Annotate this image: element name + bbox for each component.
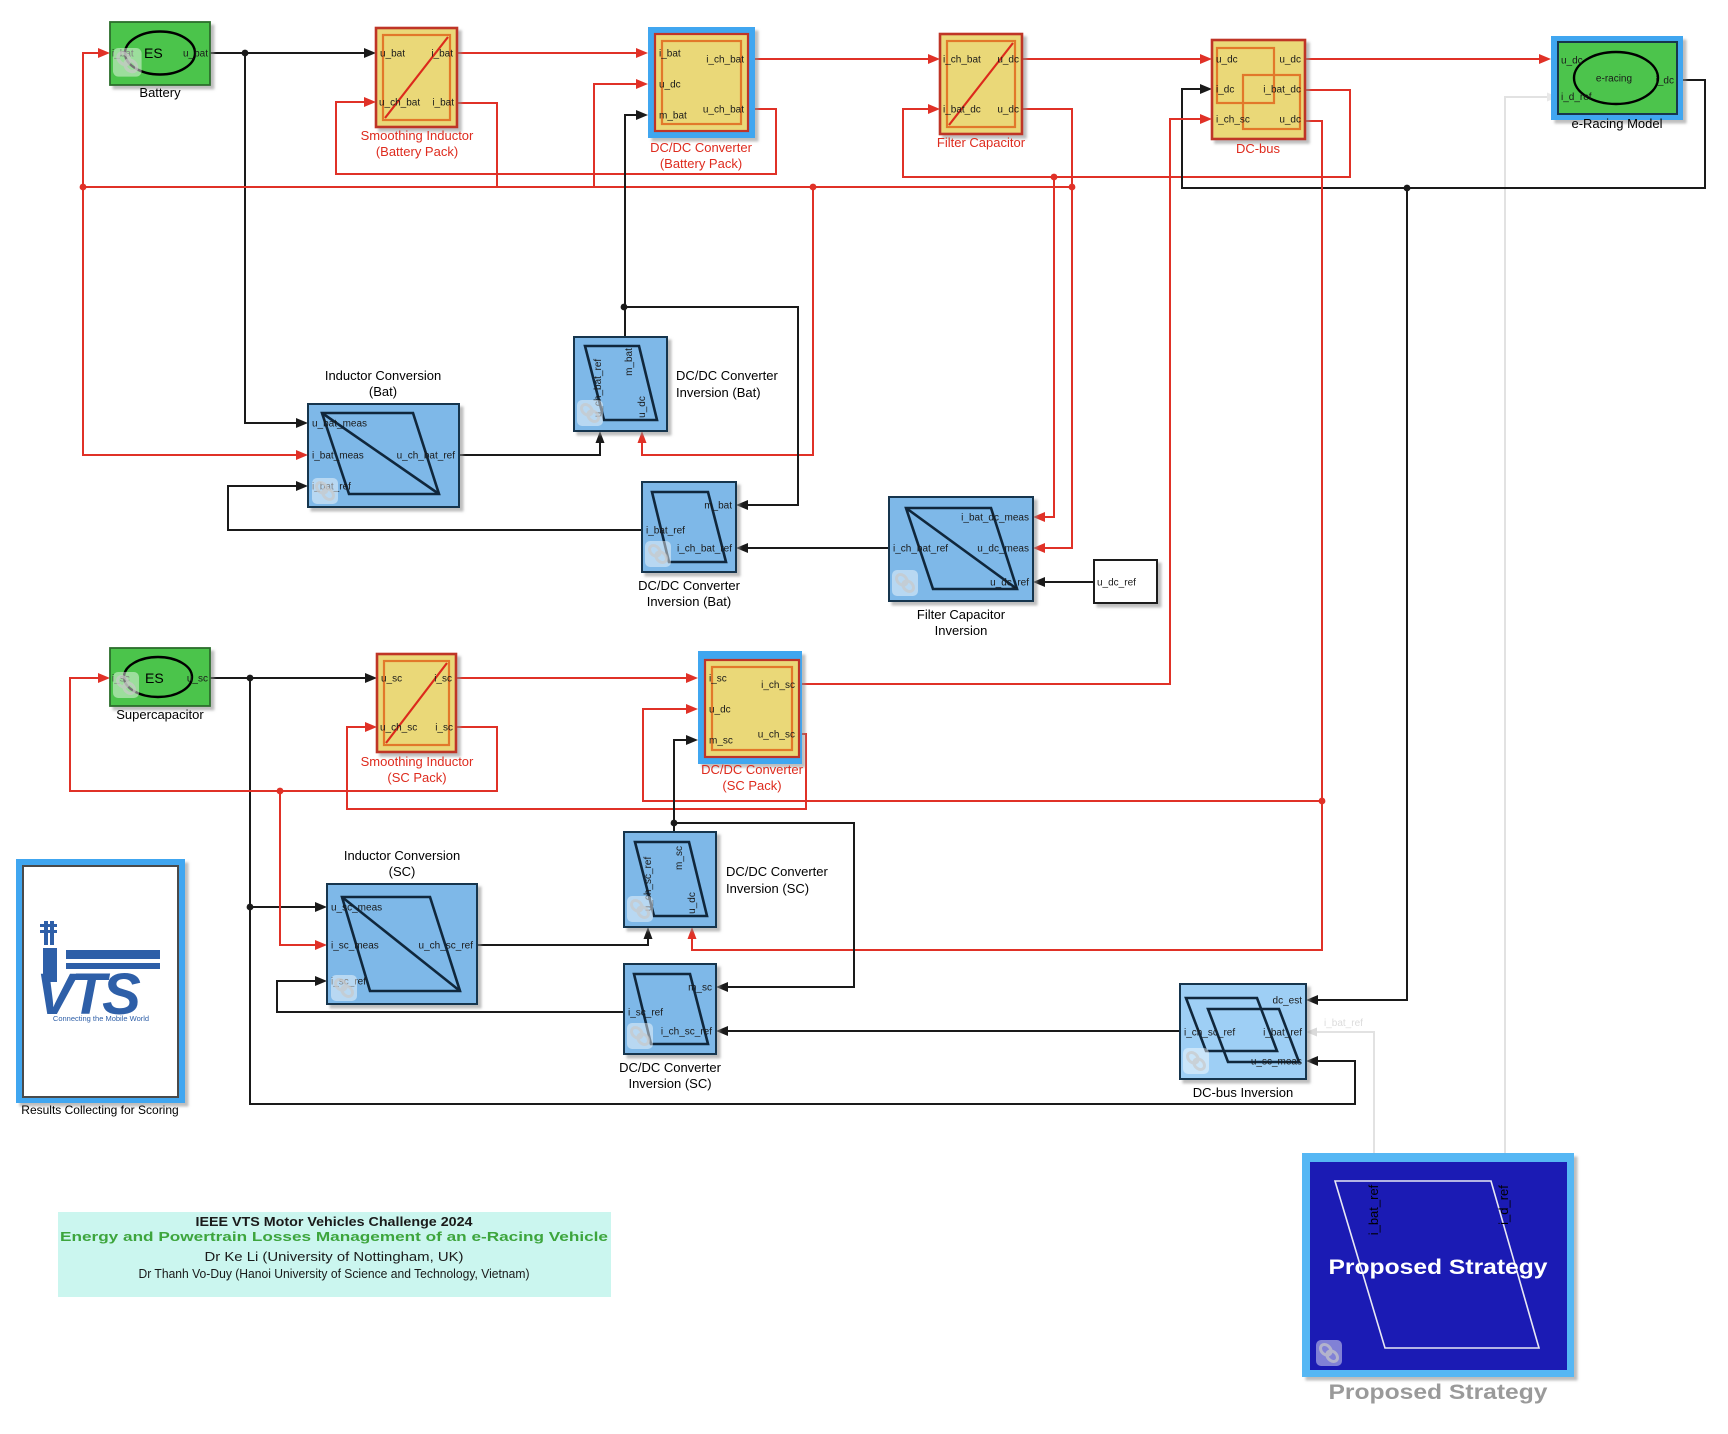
- svg-text:Inversion (SC): Inversion (SC): [726, 881, 809, 896]
- svg-text:i_bat: i_bat: [432, 98, 454, 109]
- svg-text:u_bat: u_bat: [380, 49, 405, 60]
- arrowhead u_sc_meas into DC-bus Inversion: [1306, 1056, 1318, 1066]
- svg-text:i_bat_dc: i_bat_dc: [1263, 85, 1301, 96]
- arrowhead i_bat_meas into Inductor Conversion Bat: [296, 450, 308, 460]
- block Battery: [110, 22, 210, 85]
- svg-text:i_bat_ref: i_bat_ref: [646, 526, 685, 537]
- arrowhead i_ch_sc_ref into inversion SC: [716, 1026, 728, 1036]
- svg-text:u_dc: u_dc: [687, 892, 698, 914]
- svg-text:i_ch_bat_ref: i_ch_bat_ref: [677, 544, 732, 555]
- wire i_ch_sc_ref (DC-bus Inversion output to DC/DC Converter Inversion SC, black): [727, 1030, 1180, 1032]
- svg-text:i_bat_dc_meas: i_bat_dc_meas: [961, 513, 1029, 524]
- wire i_bat feedback (Smoothing Inductor bottom output to Battery and i_bat_meas, red): [83, 53, 497, 455]
- svg-text:u_bat: u_bat: [183, 49, 208, 60]
- svg-text:u_ch_bat_ref: u_ch_bat_ref: [397, 451, 456, 462]
- arrowhead u_dc into rotated DC/DC Converter Inversion (SC): [688, 927, 697, 939]
- svg-text:i_dc: i_dc: [1656, 76, 1674, 87]
- svg-text:i_bat: i_bat: [431, 49, 453, 60]
- wire i_bat (Smoothing Inductor to DC/DC Converter Bat, red): [457, 52, 637, 54]
- svg-text:Dr Thanh Vo-Duy (Hanoi Univers: Dr Thanh Vo-Duy (Hanoi University of Sci…: [139, 1266, 530, 1281]
- svg-text:Battery: Battery: [139, 85, 181, 100]
- svg-text:i_ch_sc: i_ch_sc: [1216, 115, 1250, 126]
- block Inductor Conversion (SC): [327, 884, 477, 1004]
- junction u_sc at u_sc_meas branch: [247, 904, 254, 911]
- wire u_dc net SC side (DC-bus lower u_dc output, red): [643, 121, 1322, 950]
- arrowhead i_bat_dc into Filter Capacitor: [928, 104, 940, 114]
- svg-text:i_ch_sc_ref: i_ch_sc_ref: [661, 1027, 712, 1038]
- wire u_sc branch (to Inductor Conversion SC and DC-bus Inversion, black): [250, 678, 1355, 1104]
- arrowhead i_bat_ref into Inductor Conversion Bat: [296, 481, 308, 491]
- svg-text:u_ch_bat: u_ch_bat: [703, 105, 744, 116]
- annotation IEEE VTS text box: [58, 1212, 611, 1297]
- block Results Collecting for Scoring (VTS logo): [16, 859, 185, 1103]
- wire i_bat_ref (faint, Proposed Strategy to DC-bus Inversion): [1317, 1032, 1374, 1153]
- svg-text:u_ch_bat: u_ch_bat: [379, 98, 420, 109]
- wire u_dc net Bat side (Filter Capacitor lower u_dc output, red): [497, 84, 1072, 548]
- wire u_dc_ref (u_dc_ref block to FC Inversion, black): [1044, 581, 1094, 583]
- svg-text:(Battery Pack): (Battery Pack): [660, 156, 742, 171]
- svg-text:i_bat: i_bat: [659, 49, 681, 60]
- svg-text:i_sc_ref: i_sc_ref: [628, 1008, 663, 1019]
- svg-text:i_dc: i_dc: [1216, 85, 1234, 96]
- junction u_dc SC net: [1319, 798, 1326, 805]
- junction i_sc feedback: [277, 788, 284, 795]
- svg-text:Smoothing Inductor: Smoothing Inductor: [361, 754, 474, 769]
- arrowhead u_dc into DC-bus: [1200, 54, 1212, 64]
- svg-text:e-Racing Model: e-Racing Model: [1571, 116, 1662, 131]
- svg-text:i_ch_sc: i_ch_sc: [761, 680, 795, 691]
- svg-text:i_bat_ref: i_bat_ref: [1263, 1028, 1302, 1039]
- wire m_sc (rotated SC inversion output to DC/DC SC and inversion SC, black): [674, 740, 854, 987]
- svg-text:u_dc: u_dc: [1561, 56, 1583, 67]
- block DC/DC Converter (SC Pack): [698, 651, 802, 764]
- svg-text:DC/DC Converter: DC/DC Converter: [701, 762, 804, 777]
- svg-text:DC/DC Converter: DC/DC Converter: [726, 864, 829, 879]
- arrowhead i_d_ref faint: [1547, 93, 1558, 102]
- wire u_bat branch to Inductor Conversion (Bat): [245, 53, 297, 423]
- svg-text:m_bat: m_bat: [659, 111, 687, 122]
- wire i_sc_ref loop (inversion SC output to Inductor Conversion SC, black): [277, 981, 624, 1012]
- svg-text:Smoothing Inductor: Smoothing Inductor: [361, 128, 474, 143]
- svg-text:i_bat_dc: i_bat_dc: [943, 105, 981, 116]
- svg-text:DC/DC Converter: DC/DC Converter: [650, 140, 753, 155]
- arrowhead u_bat into SI Bat: [364, 48, 376, 58]
- arrowhead u_ch_sc into SI SC: [365, 722, 377, 732]
- svg-text:u_sc: u_sc: [381, 674, 402, 685]
- svg-text:m_bat: m_bat: [624, 348, 635, 376]
- block DC-bus: [1212, 40, 1305, 139]
- arrowhead i_sc_ref into Inductor Conversion SC: [315, 976, 327, 986]
- svg-text:u_dc: u_dc: [659, 80, 681, 91]
- wire i_ch_bat (DC/DC Converter to Filter Capacitor, red): [755, 58, 929, 60]
- arrowhead i_bat_ref faint: [1306, 1028, 1317, 1037]
- svg-text:u_dc: u_dc: [997, 105, 1019, 116]
- svg-text:dc_est: dc_est: [1273, 996, 1303, 1007]
- wire i_sc (Smoothing Inductor SC to DC/DC Converter SC, red): [456, 677, 687, 679]
- junction u_dc net at 1072,186: [1069, 184, 1076, 191]
- svg-text:u_dc: u_dc: [997, 55, 1019, 66]
- svg-text:u_dc: u_dc: [1279, 115, 1301, 126]
- svg-text:Connecting the Mobile World: Connecting the Mobile World: [53, 1014, 149, 1023]
- block Supercapacitor: [110, 648, 210, 706]
- block Smoothing Inductor (SC Pack): [377, 654, 456, 752]
- svg-text:u_dc_ref: u_dc_ref: [1097, 578, 1136, 589]
- svg-text:DC/DC Converter: DC/DC Converter: [638, 578, 741, 593]
- svg-text:u_dc: u_dc: [1279, 55, 1301, 66]
- arrowhead m_sc into inversion SC: [716, 982, 728, 992]
- wire u_bat (Battery to Smoothing Inductor, black): [210, 52, 365, 54]
- svg-text:DC-bus Inversion: DC-bus Inversion: [1193, 1085, 1293, 1100]
- svg-text:u_dc_ref: u_dc_ref: [990, 578, 1029, 589]
- svg-text:u_sc_meas: u_sc_meas: [1251, 1057, 1302, 1068]
- svg-text:i_d_ref: i_d_ref: [1496, 1185, 1511, 1225]
- wire u_ch_bat_ref (Inductor Conversion Bat to rotated inversion, black): [459, 442, 600, 455]
- arrowhead u_dc into DC/DC SC: [686, 704, 698, 714]
- svg-text:Inductor Conversion: Inductor Conversion: [325, 368, 441, 383]
- junction u_sc at source: [247, 675, 254, 682]
- svg-text:e-racing: e-racing: [1596, 74, 1632, 85]
- wire i_sc feedback (SI SC bottom output to Supercapacitor and i_sc_meas, red): [70, 678, 497, 945]
- svg-text:u_dc: u_dc: [709, 705, 731, 716]
- svg-text:(Bat): (Bat): [369, 384, 397, 399]
- junction u_dc net at 813,186: [810, 184, 817, 191]
- svg-text:i_bat_ref: i_bat_ref: [1366, 1184, 1381, 1235]
- svg-text:Inversion: Inversion: [935, 623, 988, 638]
- svg-text:i_sc: i_sc: [709, 674, 727, 685]
- arrowhead u_ch_bat_ref up: [596, 431, 605, 443]
- wire u_ch_sc_ref (Inductor Conversion SC to rotated SC inversion, black): [477, 938, 648, 945]
- svg-text:i_bat_ref: i_bat_ref: [1324, 1018, 1363, 1029]
- arrowhead u_sc_meas into Inductor Conversion SC: [315, 902, 327, 912]
- svg-text:i_ch_bat: i_ch_bat: [943, 55, 981, 66]
- svg-text:Inversion (SC): Inversion (SC): [628, 1076, 711, 1091]
- arrowhead u_bat_meas into Inductor Conversion Bat: [296, 418, 308, 428]
- svg-text:Energy and Powertrain Losses M: Energy and Powertrain Losses Management …: [60, 1229, 608, 1244]
- block DC-bus Inversion: [1180, 984, 1306, 1079]
- svg-text:u_ch_sc_ref: u_ch_sc_ref: [419, 941, 474, 952]
- arrowhead u_dc into rotated DC/DC Converter Inversion (Bat): [638, 431, 647, 443]
- block DC/DC Converter Inversion (SC): [624, 964, 716, 1054]
- svg-text:Dr Ke Li (University of Nottin: Dr Ke Li (University of Nottingham, UK): [205, 1249, 464, 1264]
- svg-text:Proposed Strategy: Proposed Strategy: [1329, 1256, 1548, 1279]
- svg-text:i_ch_sc_ref: i_ch_sc_ref: [1184, 1028, 1235, 1039]
- wire i_bat_ref loop (inversion Bat output to Inductor Conversion, black): [228, 486, 642, 530]
- svg-text:Filter Capacitor: Filter Capacitor: [917, 607, 1006, 622]
- svg-text:Supercapacitor: Supercapacitor: [116, 707, 204, 722]
- svg-text:m_sc: m_sc: [674, 846, 685, 870]
- arrowhead m_sc into DC/DC SC: [686, 735, 698, 745]
- svg-text:(SC Pack): (SC Pack): [722, 778, 781, 793]
- wire i_bat_dc (DC-bus to Filter Capacitor and FC Inversion, red): [903, 90, 1350, 517]
- svg-text:(SC): (SC): [389, 864, 416, 879]
- arrowhead u_dc_meas into FC Inversion: [1033, 543, 1045, 553]
- svg-text:ES: ES: [144, 45, 163, 61]
- arrowhead i_ch_sc into DC-bus: [1200, 114, 1212, 124]
- svg-text:i_sc: i_sc: [435, 723, 453, 734]
- block DC/DC Converter Inversion (Bat): [642, 482, 736, 572]
- arrowhead u_sc into SI SC: [365, 673, 377, 683]
- arrowhead i_sc into DC/DC SC: [686, 673, 698, 683]
- svg-text:(SC Pack): (SC Pack): [387, 770, 446, 785]
- wire i_dc (e-Racing output to DC-bus i_dc, black): [1182, 80, 1705, 1000]
- wire u_dc (DC-bus to e-Racing Model, red): [1305, 58, 1540, 60]
- junction i_dc: [1404, 185, 1411, 192]
- svg-text:DC-bus: DC-bus: [1236, 141, 1281, 156]
- block DC/DC Converter Inversion (SC) rotated: [624, 832, 716, 927]
- svg-text:DC/DC Converter: DC/DC Converter: [619, 1060, 722, 1075]
- arrowhead i_sc into Supercapacitor: [98, 673, 110, 683]
- arrowhead u_dc into e-Racing: [1539, 54, 1551, 64]
- junction m_sc: [671, 820, 678, 827]
- svg-text:u_dc: u_dc: [1216, 55, 1238, 66]
- svg-text:u_dc_meas: u_dc_meas: [977, 544, 1029, 555]
- block Smoothing Inductor (Battery Pack): [376, 28, 457, 127]
- junction u_bat: [242, 50, 249, 57]
- svg-text:Results Collecting for Scoring: Results Collecting for Scoring: [21, 1103, 178, 1117]
- block DC/DC Converter Inversion (Bat) rotated: [574, 337, 667, 431]
- arrowhead i_ch_bat into Filter Capacitor: [928, 54, 940, 64]
- wire i_d_ref (faint, Proposed Strategy to e-Racing): [1505, 97, 1547, 1153]
- junction m_bat: [621, 304, 628, 311]
- arrowhead i_ch_bat_ref into inversion Bat: [736, 543, 748, 553]
- svg-text:Inductor Conversion: Inductor Conversion: [344, 848, 460, 863]
- svg-text:m_sc: m_sc: [709, 736, 733, 747]
- arrowhead u_dc_ref into FC Inversion: [1033, 577, 1045, 587]
- svg-text:m_bat: m_bat: [704, 501, 732, 512]
- svg-text:u_dc: u_dc: [637, 396, 648, 418]
- wire u_ch_bat loop (DC/DC Converter u_ch_bat back to Smoothing Inductor, red): [336, 102, 776, 174]
- junction i_bat_dc: [1051, 174, 1058, 181]
- arrowhead i_sc_meas into Inductor Conversion SC: [315, 940, 327, 950]
- svg-text:u_sc: u_sc: [187, 674, 208, 685]
- svg-text:ES: ES: [145, 670, 164, 686]
- arrowhead u_ch_sc_ref up: [644, 927, 653, 939]
- svg-text:i_sc: i_sc: [434, 674, 452, 685]
- wire m_bat (rotated inversion output to DC/DC Converter and inversion Bat, black): [624, 115, 798, 505]
- block Filter Capacitor: [940, 34, 1022, 134]
- svg-text:i_bat_meas: i_bat_meas: [312, 451, 364, 462]
- wire u_dc (Filter Capacitor to DC-bus, red): [1022, 58, 1201, 60]
- svg-text:Proposed Strategy: Proposed Strategy: [1329, 1381, 1548, 1404]
- junction i_bat feedback: [80, 184, 87, 191]
- arrowhead dc_est into DC-bus Inversion: [1306, 995, 1318, 1005]
- arrowhead u_dc into DC/DC Bat: [636, 79, 648, 89]
- svg-text:i_d_ref: i_d_ref: [1561, 92, 1592, 103]
- block u_dc_ref: [1094, 560, 1157, 603]
- block Inductor Conversion (Bat): [308, 404, 459, 507]
- svg-text:i_sc_meas: i_sc_meas: [331, 941, 379, 952]
- svg-text:i_ch_bat_ref: i_ch_bat_ref: [893, 544, 948, 555]
- svg-text:i_ch_bat: i_ch_bat: [706, 55, 744, 66]
- wire u_ch_sc loop (DC/DC SC u_ch_sc back to Smoothing Inductor SC, red): [347, 727, 806, 809]
- svg-text:u_sc_meas: u_sc_meas: [331, 903, 382, 914]
- block Filter Capacitor Inversion: [889, 497, 1033, 601]
- arrowhead m_bat into DC/DC Bat: [636, 110, 648, 120]
- svg-text:DC/DC Converter: DC/DC Converter: [676, 368, 779, 383]
- block DC/DC Converter (Battery Pack): [648, 27, 755, 138]
- arrowhead i_dc into DC-bus: [1200, 84, 1212, 94]
- arrowhead m_bat into inversion Bat: [736, 500, 748, 510]
- svg-text:u_ch_sc: u_ch_sc: [758, 730, 795, 741]
- arrowhead u_ch_bat into SI Bat: [364, 97, 376, 107]
- wire i_ch_sc (DC/DC SC to DC-bus, red): [802, 119, 1201, 684]
- svg-text:(Battery Pack): (Battery Pack): [376, 144, 458, 159]
- svg-text:u_bat_meas: u_bat_meas: [312, 419, 367, 430]
- svg-text:u_ch_sc: u_ch_sc: [380, 723, 417, 734]
- svg-text:Inversion (Bat): Inversion (Bat): [676, 385, 761, 400]
- svg-text:Inversion (Bat): Inversion (Bat): [647, 594, 732, 609]
- wire u_sc (Supercapacitor to Smoothing Inductor SC, black): [210, 677, 366, 679]
- block Proposed Strategy: [1302, 1153, 1574, 1377]
- arrowhead i_bat into Battery: [98, 48, 110, 58]
- arrowhead i_bat_dc_meas into FC Inversion: [1033, 512, 1045, 522]
- svg-text:m_sc: m_sc: [688, 983, 712, 994]
- arrowhead i_bat into DC/DC Bat: [636, 48, 648, 58]
- wire i_ch_bat_ref (FC Inversion to DC/DC Converter Inversion Bat, black): [747, 547, 889, 549]
- svg-text:Filter Capacitor: Filter Capacitor: [937, 135, 1026, 150]
- block e-Racing Model: [1551, 36, 1683, 120]
- svg-text:IEEE VTS Motor Vehicles Challe: IEEE VTS Motor Vehicles Challenge 2024: [196, 1214, 474, 1229]
